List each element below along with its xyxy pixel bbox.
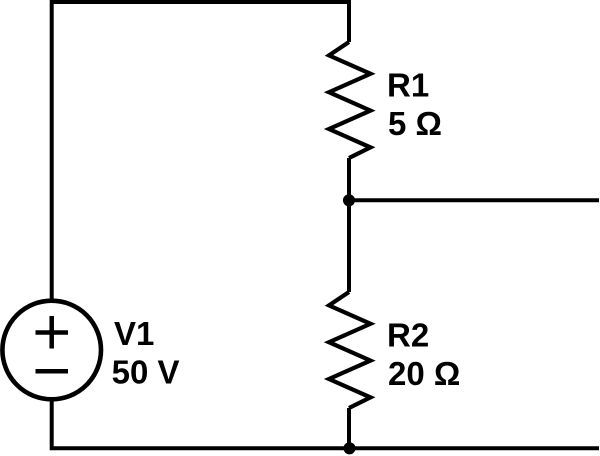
svg-text:5 Ω: 5 Ω — [388, 105, 442, 142]
plus sign — [36, 316, 69, 349]
wire between R1 and R2 — [347, 158, 351, 292]
svg-text:20 Ω: 20 Ω — [388, 355, 460, 392]
wire top loop: left vertical, top horizontal, R1 top lead — [52, 2, 349, 299]
minus sign — [36, 369, 69, 374]
svg-text:R1: R1 — [387, 66, 429, 103]
resistor R2 — [329, 292, 371, 408]
resistor R1 — [329, 42, 371, 158]
wire bottom: V1 bottom lead, bottom horizontal — [52, 402, 599, 449]
wire middle output to right edge — [349, 198, 599, 202]
voltage source V1 circle — [2, 301, 101, 400]
svg-text:V1: V1 — [114, 315, 154, 352]
wire R2 bottom lead — [347, 408, 351, 448]
svg-text:50 V: 50 V — [112, 353, 180, 390]
node dot bottom junction — [343, 442, 355, 454]
svg-text:R2: R2 — [387, 316, 429, 353]
node dot junction — [343, 194, 355, 206]
